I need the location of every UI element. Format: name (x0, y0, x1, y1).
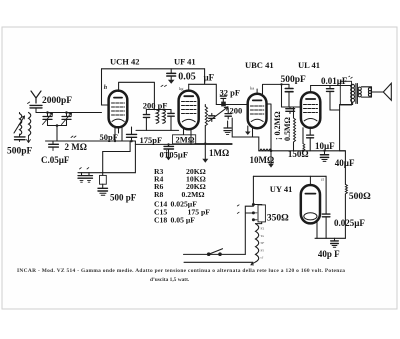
svg-text:INCAR - Mod. VZ 514 - Gamma on: INCAR - Mod. VZ 514 - Gamma onde medie. … (17, 268, 345, 274)
wire bottom right (315, 237, 345, 239)
wire UL41 plate (311, 85, 352, 87)
resistor 0.2M leak wire (267, 104, 272, 164)
svg-text:150Ω: 150Ω (288, 149, 309, 159)
svg-text:500 pF: 500 pF (110, 193, 137, 203)
wire IF bottom (136, 129, 179, 131)
output transformer (340, 81, 351, 105)
trimmer 32pF (220, 96, 226, 98)
svg-text:UF 41: UF 41 (174, 57, 196, 67)
tube UF41 leads (184, 129, 192, 144)
tube UCH42 (109, 91, 128, 128)
wire UL41 grid (282, 106, 301, 108)
capacitor C.05uF (52, 141, 54, 144)
wire det (195, 143, 232, 145)
svg-text:5F: 5F (261, 241, 265, 245)
svg-text:200 pF: 200 pF (143, 101, 168, 111)
resistor 2 MOhm marks (71, 136, 76, 138)
capacitor 0.025uF (322, 214, 330, 217)
svg-text:40p F: 40p F (318, 249, 340, 259)
svg-text:R8: R8 (154, 190, 164, 199)
svg-text:UL 41: UL 41 (298, 60, 320, 70)
resistor 10MOhm (260, 149, 272, 151)
wire antenna top (36, 112, 102, 114)
svg-text:0.01µF: 0.01µF (321, 76, 348, 86)
resistor 0.2MOhm grid (281, 84, 283, 107)
capacitor det b (227, 108, 229, 113)
wire AVC bottom (46, 140, 136, 142)
tube UBC41 (248, 94, 267, 128)
resistor 0.5MOhm (293, 107, 295, 118)
variable capacitor C tune 1 (46, 111, 49, 114)
wire cathode loop (103, 142, 136, 173)
tick fs (349, 76, 353, 79)
svg-text:0.05: 0.05 (178, 72, 196, 83)
capacitor 50pF (131, 127, 133, 134)
capacitor 2000pF (30, 105, 42, 112)
wire B+ filter (340, 151, 346, 185)
wire cathode bus (259, 150, 346, 152)
wire UBC41 cathode (252, 128, 254, 137)
svg-text:0Ṫ05µF: 0Ṫ05µF (160, 150, 189, 160)
svg-text:0.2MΩ: 0.2MΩ (182, 190, 205, 199)
capacitor 200pF (145, 110, 147, 115)
capacitor cathode small (309, 128, 311, 135)
wire UBC41 plate (263, 84, 290, 93)
variable capacitor C tune 2 (65, 111, 68, 114)
svg-text:C18: C18 (154, 216, 167, 225)
svg-text:50pF: 50pF (100, 132, 118, 142)
svg-text:UBC 41: UBC 41 (245, 60, 274, 70)
wire grid UBC41 (216, 104, 247, 106)
svg-text:µF: µF (204, 73, 215, 83)
resistor cathode box (100, 175, 107, 184)
svg-text:32 pF: 32 pF (220, 88, 241, 98)
wire B+ from transformer (340, 103, 353, 151)
ground det (204, 144, 206, 159)
svg-text:d’uscita 1,5 watt.: d’uscita 1,5 watt. (150, 277, 190, 283)
svg-text:500Ω: 500Ω (349, 192, 371, 202)
parts list (154, 167, 210, 225)
speaker (372, 91, 384, 93)
tick c antenna (28, 102, 30, 104)
resistor 150 Ohm (303, 144, 305, 151)
capacitor IF right (170, 110, 172, 114)
coil L1 antenna primary (20, 114, 22, 136)
svg-text:ka: ka (250, 86, 254, 91)
coil IF primary (156, 110, 159, 124)
svg-text:C.05µF: C.05µF (41, 155, 70, 165)
svg-text:UY 41: UY 41 (270, 184, 293, 194)
capacitor 500 pF cathode (98, 188, 108, 191)
tube UF41 (179, 91, 199, 130)
wire UY41 loop top (253, 175, 326, 177)
capacitor AVC pair (78, 172, 103, 174)
svg-text:350Ω: 350Ω (267, 213, 289, 223)
resistor 500 Ohm (345, 184, 347, 194)
capacitor grid UL41 (289, 107, 291, 109)
tube UCH42 leads (115, 127, 122, 142)
svg-text:¡ 0.2MΩ: ¡ 0.2MΩ (273, 111, 282, 140)
svg-text:0.05 µF: 0.05 µF (171, 216, 196, 225)
wire mains lower (184, 261, 253, 263)
node UCH42 box (102, 68, 205, 70)
capacitor 500pF aerial (15, 137, 26, 140)
ground UBC grid (247, 126, 249, 132)
resistor 2MOhm box (173, 135, 196, 144)
arrow through L1 (14, 116, 25, 133)
svg-text:kg: kg (179, 86, 184, 91)
svg-text:Ta: Ta (261, 234, 265, 238)
potentiometer 1MOhm (205, 107, 207, 126)
capacitor 0.05uF det (168, 144, 170, 146)
coil L2 secondary (29, 113, 31, 136)
svg-text:F2: F2 (261, 227, 265, 231)
tube UY41 (301, 185, 320, 223)
svg-text:10MΩ: 10MΩ (250, 155, 275, 165)
antenna (31, 91, 41, 103)
svg-text:2 MΩ: 2 MΩ (65, 142, 87, 152)
wire UF41 plate top (189, 69, 217, 105)
wire UY41 cathode (316, 221, 318, 239)
capacitor 500pF coupling (288, 84, 290, 88)
ballast coil (256, 224, 259, 262)
svg-text:175pF: 175pF (140, 135, 163, 145)
svg-text:0.025µF: 0.025µF (334, 218, 365, 228)
svg-text:2000pF: 2000pF (42, 96, 72, 106)
wire tuning bottom (48, 125, 67, 127)
svg-text:UCH 42: UCH 42 (110, 57, 140, 67)
capacitor 0.05uF screen (170, 69, 172, 73)
capacitor det c (227, 121, 229, 128)
tube UL41 (301, 92, 320, 128)
capacitor 40pF (334, 238, 336, 240)
wire det to 10M (232, 118, 259, 151)
svg-text:10µF: 10µF (315, 141, 335, 151)
switch mains (184, 253, 246, 255)
svg-text:500pF: 500pF (281, 75, 307, 85)
arrow under L2 (27, 136, 31, 143)
svg-text:2MΩ: 2MΩ (176, 135, 195, 145)
resistor 350 Ohm box (258, 205, 265, 222)
wire step to detector row (135, 141, 232, 144)
svg-text:0.5MΩ: 0.5MΩ (283, 116, 292, 141)
svg-text:200: 200 (230, 106, 243, 116)
svg-text:40µF: 40µF (335, 158, 355, 168)
svg-text:500pF: 500pF (7, 147, 33, 157)
coil IF secondary (163, 110, 166, 124)
junction dots mains (252, 203, 255, 206)
wire switch riser (245, 206, 253, 254)
svg-text:1MΩ: 1MΩ (209, 148, 229, 158)
capacitor 0.01uF (329, 86, 331, 89)
wire UL41 cathode (302, 128, 304, 144)
capacitor det a (211, 113, 213, 115)
wire screen inner (119, 82, 155, 109)
IF transformer T1 (146, 109, 171, 111)
capacitor 40uF electrolytic (324, 151, 326, 155)
